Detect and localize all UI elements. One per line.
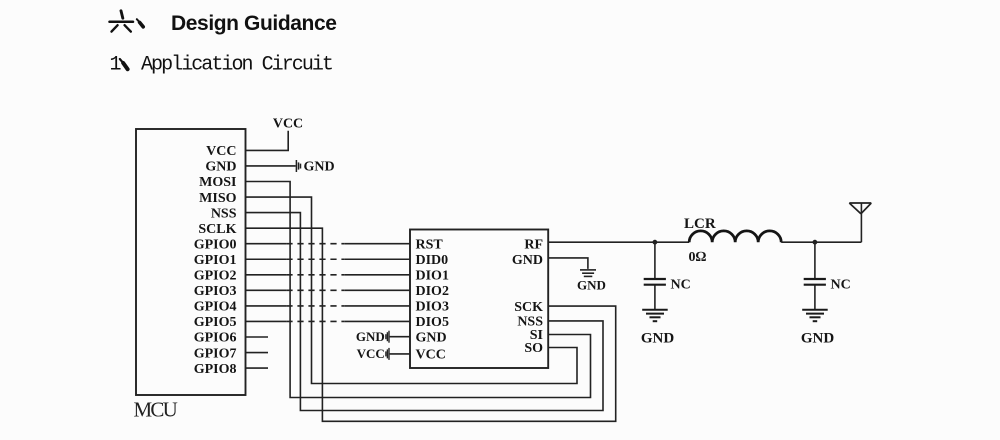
svg-text:GPIO6: GPIO6 bbox=[194, 331, 237, 346]
svg-text:GND: GND bbox=[205, 160, 236, 175]
svg-text:1: 1 bbox=[110, 54, 122, 77]
svg-text:GPIO4: GPIO4 bbox=[194, 300, 237, 315]
svg-text:LCR: LCR bbox=[684, 216, 716, 232]
svg-text:GND: GND bbox=[577, 278, 606, 293]
svg-text:GPIO2: GPIO2 bbox=[194, 269, 237, 284]
svg-text:NSS: NSS bbox=[211, 206, 237, 221]
svg-text:MISO: MISO bbox=[199, 191, 236, 206]
svg-text:GND: GND bbox=[356, 329, 385, 344]
svg-text:SCK: SCK bbox=[514, 300, 543, 315]
svg-text:GPIO7: GPIO7 bbox=[194, 346, 237, 361]
svg-text:GND: GND bbox=[512, 253, 543, 268]
svg-text:NC: NC bbox=[831, 278, 851, 293]
svg-text:VCC: VCC bbox=[206, 144, 236, 159]
svg-text:MCU: MCU bbox=[134, 398, 178, 422]
svg-text:DIO5: DIO5 bbox=[416, 315, 449, 330]
svg-text:GND: GND bbox=[801, 330, 835, 346]
svg-text:VCC: VCC bbox=[273, 117, 303, 132]
svg-text:SCLK: SCLK bbox=[198, 222, 236, 237]
svg-text:VCC: VCC bbox=[357, 346, 385, 361]
svg-text:DIO3: DIO3 bbox=[416, 300, 449, 315]
svg-text:GND: GND bbox=[641, 330, 675, 346]
svg-text:GPIO1: GPIO1 bbox=[194, 253, 237, 268]
svg-text:GPIO8: GPIO8 bbox=[194, 362, 237, 377]
svg-text:Application Circuit: Application Circuit bbox=[141, 54, 332, 77]
svg-text:GPIO3: GPIO3 bbox=[194, 284, 237, 299]
svg-text:GPIO0: GPIO0 bbox=[194, 237, 237, 252]
svg-text:MOSI: MOSI bbox=[199, 175, 236, 190]
svg-text:RST: RST bbox=[416, 237, 444, 252]
svg-text:DID0: DID0 bbox=[416, 253, 449, 268]
svg-text:0Ω: 0Ω bbox=[689, 250, 707, 265]
svg-text:DIO2: DIO2 bbox=[416, 284, 449, 299]
svg-text:NC: NC bbox=[671, 278, 691, 293]
svg-text:RF: RF bbox=[524, 237, 543, 252]
svg-text:GND: GND bbox=[416, 330, 447, 345]
svg-text:GND: GND bbox=[304, 160, 335, 175]
svg-text:GPIO5: GPIO5 bbox=[194, 315, 237, 330]
svg-text:SO: SO bbox=[524, 341, 543, 356]
svg-text:DIO1: DIO1 bbox=[416, 269, 449, 284]
svg-text:VCC: VCC bbox=[416, 348, 446, 363]
svg-text:Design Guidance: Design Guidance bbox=[171, 12, 337, 35]
